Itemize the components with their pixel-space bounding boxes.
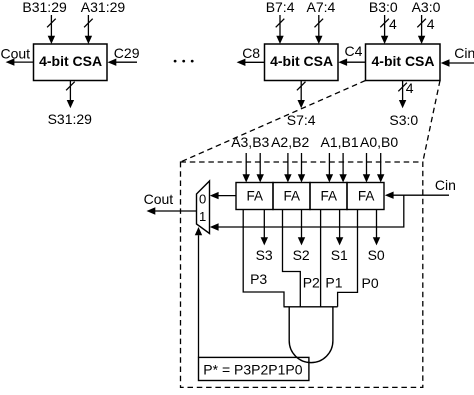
wire Cout detail output (147, 207, 197, 214)
svg-text:FA: FA (321, 188, 338, 203)
wire S7:4 output (297, 81, 306, 109)
dashed connector left (181, 81, 366, 163)
wire Cin detail input (385, 192, 449, 199)
wire C4 arrow (338, 59, 365, 66)
wire S3:0 output (398, 81, 407, 109)
wire P1 (320, 210, 322, 307)
wire P0 (338, 210, 358, 307)
4-bit CSA block 3:0 (366, 44, 441, 81)
svg-text:FA: FA (358, 188, 375, 203)
svg-text:1: 1 (199, 209, 206, 224)
wire A7:4 input (315, 15, 324, 44)
svg-text:S3:0: S3:0 (389, 112, 418, 128)
svg-text:C4: C4 (345, 43, 363, 59)
wire B0 input to FA (377, 153, 384, 183)
wire S31:29 output (66, 81, 75, 109)
svg-text:P3: P3 (250, 271, 267, 287)
wire A2 input to FA (284, 153, 291, 183)
wire A0 input to FA (363, 153, 370, 183)
svg-text:FA: FA (284, 188, 301, 203)
wire S3 output (261, 210, 268, 246)
svg-text:C29: C29 (114, 45, 140, 61)
svg-text:A2,B2: A2,B2 (271, 134, 309, 150)
svg-text:B7:4: B7:4 (266, 0, 295, 15)
dashed connector right (423, 81, 440, 163)
full adder FA0 (347, 183, 384, 210)
svg-text:4: 4 (427, 16, 435, 32)
svg-text:P1: P1 (325, 274, 342, 290)
wire B7:4 input (276, 15, 285, 44)
AND gate P* = P3P2P1P0 (284, 307, 338, 363)
wire S1 output (336, 210, 343, 246)
wire Cin bypass to mux input 1 (210, 195, 404, 231)
svg-text:P* = P3P2P1P0: P* = P3P2P1P0 (203, 362, 302, 378)
wire Cin top arrow (441, 59, 474, 66)
svg-text:A3,B3: A3,B3 (231, 134, 269, 150)
wire FA carry to mux input 0 (210, 192, 236, 199)
svg-text:S0: S0 (368, 247, 385, 263)
svg-text:A3:0: A3:0 (412, 0, 441, 15)
full adder FA2 (273, 183, 310, 210)
svg-text:S1: S1 (331, 247, 348, 263)
svg-text:Cin: Cin (454, 45, 474, 61)
wire P3 (243, 210, 284, 307)
svg-text:C8: C8 (242, 45, 260, 61)
wire P2 (283, 210, 301, 307)
svg-text:P2: P2 (303, 274, 320, 290)
wire C29 input arrow (108, 59, 138, 66)
svg-text:A1,B1: A1,B1 (321, 134, 359, 150)
svg-text:Cout: Cout (144, 191, 174, 207)
svg-text:4: 4 (389, 16, 397, 32)
svg-text:A31:29: A31:29 (81, 0, 126, 15)
wire A1 input to FA (326, 153, 333, 183)
mux 2:1 carry select (197, 181, 210, 234)
wire B3:0 input (380, 15, 389, 44)
svg-text:P0: P0 (362, 275, 379, 291)
svg-text:FA: FA (247, 188, 264, 203)
wire S0 output (373, 210, 380, 246)
wire S2 output (298, 210, 305, 246)
P* label box (199, 357, 309, 380)
full adder FA1 (310, 183, 347, 210)
wire B31:29 input (47, 15, 56, 44)
wire A3:0 input (417, 15, 426, 44)
svg-text:S31:29: S31:29 (48, 111, 93, 127)
wire P* select to mux (195, 227, 202, 357)
4-bit CSA block 7:4 (265, 44, 339, 81)
svg-text:4-bit CSA: 4-bit CSA (372, 53, 435, 69)
svg-text:B31:29: B31:29 (22, 0, 67, 15)
svg-text:0: 0 (199, 192, 206, 207)
svg-text:A0,B0: A0,B0 (360, 134, 398, 150)
wire A3 input to FA (243, 153, 250, 183)
svg-text:A7:4: A7:4 (307, 0, 336, 15)
svg-text:S2: S2 (293, 247, 310, 263)
svg-text:S7:4: S7:4 (287, 112, 316, 128)
svg-text:S3: S3 (256, 247, 273, 263)
wire C8 output arrow (237, 59, 265, 66)
svg-text:4: 4 (406, 80, 414, 96)
wire B3 input to FA (257, 153, 264, 183)
svg-text:Cout: Cout (1, 46, 31, 62)
ellipsis dots (174, 60, 194, 63)
svg-text:Cin: Cin (435, 177, 456, 193)
svg-text:4-bit CSA: 4-bit CSA (270, 53, 333, 69)
4-bit CSA block 31:29 (34, 44, 108, 81)
svg-text:B3:0: B3:0 (369, 0, 398, 15)
dashed detail rectangle (181, 162, 423, 387)
svg-text:4-bit CSA: 4-bit CSA (39, 53, 102, 69)
full adder FA3 (236, 183, 273, 210)
wire B2 input to FA (298, 153, 305, 183)
wire A31:29 input (84, 15, 93, 44)
wire Cout output arrow (6, 58, 34, 65)
wire B1 input to FA (339, 153, 346, 183)
